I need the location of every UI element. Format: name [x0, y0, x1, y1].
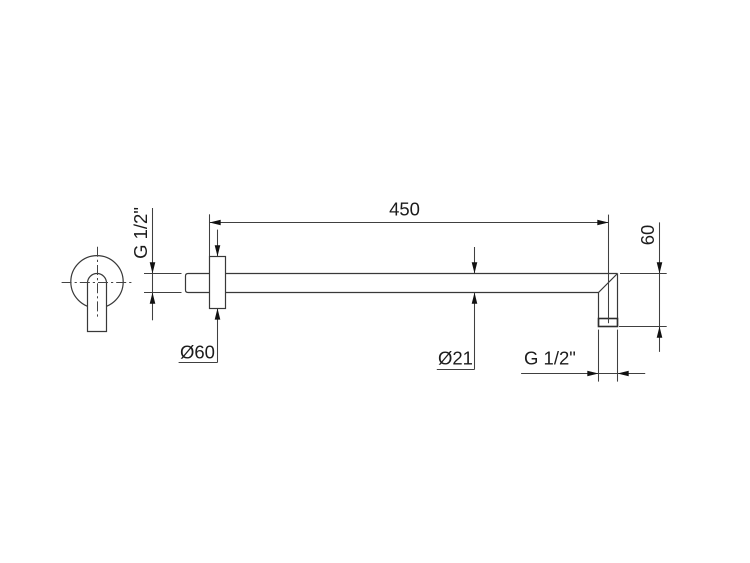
- svg-text:Ø21: Ø21: [438, 347, 473, 368]
- svg-text:450: 450: [389, 199, 420, 220]
- svg-text:G 1/2": G 1/2": [524, 348, 576, 369]
- svg-text:Ø60: Ø60: [180, 342, 215, 363]
- svg-text:60: 60: [637, 225, 658, 246]
- svg-text:G 1/2": G 1/2": [130, 207, 151, 259]
